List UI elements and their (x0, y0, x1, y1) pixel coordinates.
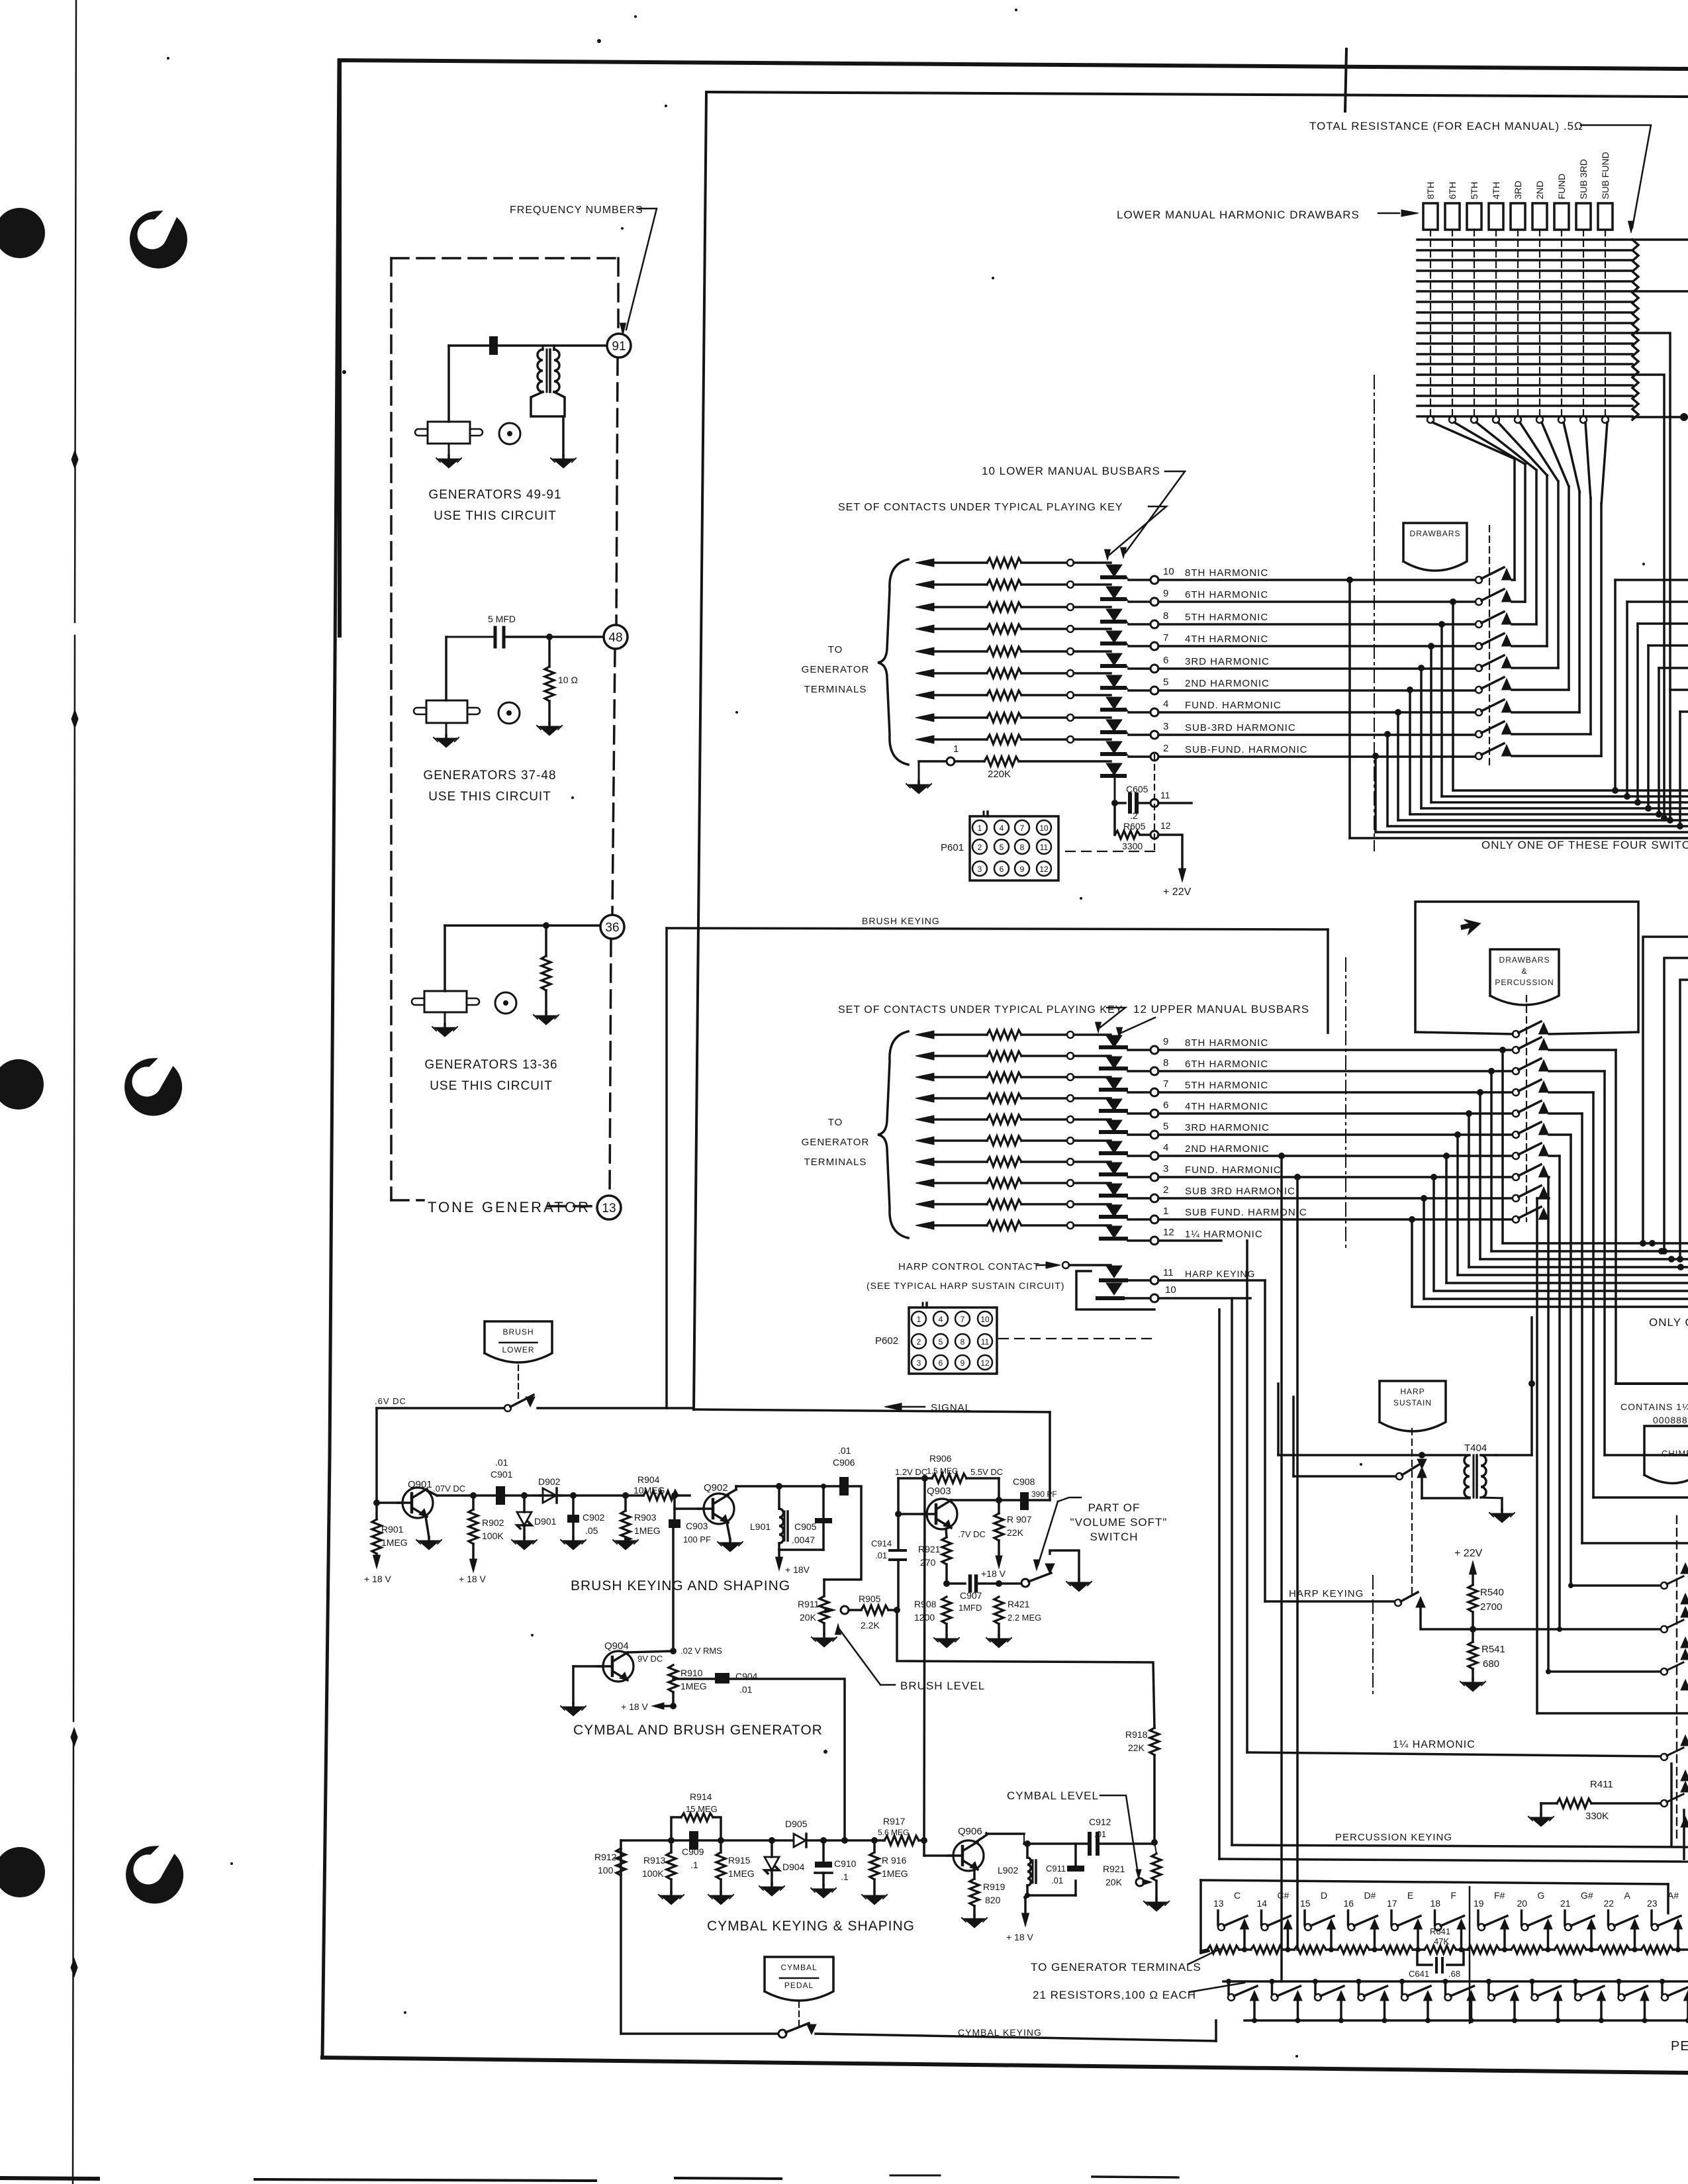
svg-text:R904: R904 (637, 1474, 660, 1485)
transistor Q903 (927, 1499, 957, 1529)
upper contacts leader (1100, 1008, 1125, 1027)
svg-text:2: 2 (917, 1337, 921, 1347)
percussion contact R411 (1661, 1800, 1667, 1807)
svg-text:C906: C906 (833, 1457, 855, 1468)
svg-text:.68: .68 (1448, 1969, 1460, 1979)
signal drop to Q903 (1049, 1412, 1051, 1500)
phase dot gen1 (499, 423, 520, 444)
P601 pin 11 (1037, 839, 1051, 854)
ground gen2 res (548, 723, 551, 726)
+18V R902 (470, 1559, 477, 1572)
svg-text:LOWER MANUAL HARMONIC DRAWB: LOWER MANUAL HARMONIC DRAWBARS (1117, 209, 1360, 221)
svg-text:A#: A# (1667, 1890, 1679, 1901)
svg-text:820: 820 (985, 1895, 1001, 1905)
Q901 base tee (373, 1499, 380, 1506)
bank2 cascade junction 8 (1430, 1174, 1437, 1180)
zener D904 (769, 1837, 775, 1844)
svg-text:BRUSH: BRUSH (502, 1327, 534, 1337)
zener D901 (521, 1492, 528, 1499)
svg-text:SET OF CONTACTS UNDER TYPI: SET OF CONTACTS UNDER TYPICAL PLAYING KE… (838, 1004, 1123, 1016)
svg-text:10MEG: 10MEG (633, 1485, 665, 1496)
svg-text:6: 6 (1000, 865, 1004, 874)
lower output line 7 (1127, 643, 1129, 646)
svg-text:91: 91 (612, 340, 626, 354)
svg-text:DRAWBARS: DRAWBARS (1410, 529, 1461, 538)
inner frame top edge (706, 92, 1688, 97)
bank1 switch 4 output (1512, 645, 1547, 647)
drawbar SUB 3RD dashed lead (1583, 230, 1584, 417)
lower busbar contact 1 (1106, 763, 1122, 775)
phase dot gen3 (495, 992, 516, 1014)
svg-text:C910: C910 (834, 1858, 857, 1869)
harp keying wire (1265, 1600, 1395, 1603)
node 12 circle (1150, 831, 1158, 839)
P602 pin 3 (912, 1355, 926, 1370)
drawbars-percussion box (1415, 902, 1638, 1032)
bottom edge scuff marks (0, 2178, 98, 2179)
svg-text:3RD HARMONIC: 3RD HARMONIC (1185, 656, 1270, 667)
svg-text:GENERATOR: GENERATOR (802, 1137, 870, 1148)
upper contact line 7 (915, 1073, 934, 1081)
svg-text:CYMBAL: CYMBAL (780, 1963, 817, 1972)
svg-text:2700: 2700 (1480, 1601, 1502, 1613)
svg-text:HARP KEYING: HARP KEYING (1289, 1588, 1364, 1599)
svg-text:5: 5 (1000, 843, 1004, 852)
percussion lower key C (1226, 1979, 1231, 1984)
P602 dashed link (999, 1338, 1154, 1339)
cymbal hood dashed lead (798, 2002, 800, 2027)
svg-text:D901: D901 (534, 1516, 557, 1527)
bank1 switch 7 (1476, 709, 1482, 716)
svg-text:2.2 MEG: 2.2 MEG (1008, 1613, 1041, 1623)
svg-text:1MEG: 1MEG (634, 1525, 661, 1536)
svg-text:D905: D905 (785, 1819, 808, 1829)
svg-text:.01: .01 (1051, 1875, 1063, 1885)
transistor Q901 (402, 1488, 433, 1518)
vertical out4 drop (1280, 1156, 1283, 1981)
svg-text:+ 18 V: + 18 V (364, 1574, 392, 1584)
svg-text:11: 11 (1160, 790, 1170, 800)
svg-text:FUND. HARMONIC: FUND. HARMONIC (1185, 700, 1282, 711)
hood DRAWBARS (1403, 523, 1467, 571)
svg-text:330K: 330K (1585, 1811, 1609, 1822)
bank1 switch 3 output (1512, 623, 1536, 626)
+22V feed lower (1158, 835, 1182, 871)
resistor R902 100K (472, 1496, 475, 1509)
ground gen1 sec (562, 455, 565, 459)
P602 pin 10 (978, 1311, 992, 1326)
svg-text:HARP KEYING: HARP KEYING (1185, 1268, 1255, 1279)
P601 pin 3 (972, 861, 987, 876)
P601 pin 10 (1037, 820, 1051, 835)
vertical percussion keying drop (1231, 1298, 1233, 1845)
bank1 cascade junction 8 (1384, 731, 1391, 737)
transformer secondary load box gen1 (531, 392, 565, 416)
drawbar output circles and fan (1427, 416, 1434, 423)
bank2 cascade junction 5 (1466, 1110, 1472, 1117)
svg-text:+ 18 V: + 18 V (1006, 1932, 1034, 1942)
svg-text:21: 21 (1560, 1898, 1571, 1909)
lower contact line 8 (915, 603, 934, 611)
svg-text:1: 1 (1163, 1206, 1168, 1217)
vertical 1 1/4 harmonic drop (1246, 1241, 1248, 1752)
svg-text:R421: R421 (1008, 1599, 1030, 1609)
bank1 cascade junction 2 (1450, 598, 1456, 605)
bank1 cascade junction 3 (1438, 621, 1445, 628)
capacitor C902 .05 (572, 1496, 575, 1515)
svg-text:3: 3 (917, 1358, 921, 1368)
svg-text:R903: R903 (634, 1512, 657, 1523)
bank1 switch 6 output (1512, 688, 1569, 691)
bank1 switch 4 (1476, 643, 1482, 649)
bank1 switch 7 output (1512, 711, 1579, 714)
hole reinforcement mark 3 (128, 1848, 181, 1901)
svg-text:20K: 20K (800, 1612, 817, 1623)
svg-text:11: 11 (1163, 1267, 1174, 1278)
svg-text:R915: R915 (728, 1855, 751, 1866)
capacitor C903 100PF (673, 1509, 676, 1519)
percussion keying bottom line (1232, 1845, 1688, 1847)
svg-text:1MEG: 1MEG (728, 1868, 755, 1879)
P602 pin 4 (933, 1311, 948, 1326)
svg-text:7: 7 (1020, 824, 1025, 833)
percussion contact 1.25 (1661, 1754, 1667, 1760)
P602 pin 2 (912, 1334, 926, 1349)
bank1 cascade junction 1 (1346, 577, 1353, 583)
upper output line 3 (1128, 1176, 1150, 1178)
upper output line 2 (1128, 1197, 1150, 1200)
percussion lower key A# (1660, 1979, 1665, 1984)
cymbal keying to percussion rows (1215, 2020, 1217, 2041)
svg-text:C908: C908 (1013, 1476, 1035, 1487)
bank2 switch 7 (1513, 1153, 1519, 1159)
L901 C905 bottom wire (779, 1548, 823, 1551)
drawbars label arrow (1378, 213, 1399, 214)
wire to Q902 base (673, 1496, 676, 1509)
bank1 cascade junction 7 (1395, 709, 1401, 716)
drawbar 4TH (1489, 203, 1503, 230)
ground gen1 box (448, 444, 450, 455)
svg-text:.7V DC: .7V DC (958, 1529, 986, 1539)
+18V R907 (996, 1556, 1002, 1568)
cymbal rail (621, 1839, 689, 1842)
svg-text:.01: .01 (838, 1445, 851, 1456)
svg-text:5TH HARMONIC: 5TH HARMONIC (1185, 1080, 1268, 1091)
svg-text:4TH: 4TH (1491, 182, 1501, 199)
svg-text:13: 13 (1213, 1898, 1224, 1909)
svg-text:13: 13 (602, 1202, 616, 1215)
svg-text:R917: R917 (883, 1816, 906, 1827)
dash-dot separator upper (1374, 375, 1375, 851)
svg-text:C: C (1234, 1890, 1241, 1901)
capacitor C901 .01 (496, 1486, 505, 1505)
pot R921 20K (1154, 1842, 1156, 1854)
svg-text:8TH HARMONIC: 8TH HARMONIC (1185, 1037, 1268, 1049)
svg-text:21 RESISTORS,100 Ω EACH: 21 RESISTORS,100 Ω EACH (1033, 1989, 1196, 2001)
lower contact line 1 (220K) (919, 760, 947, 763)
busbar 10 left hook wire (1076, 1271, 1154, 1309)
bank1 switch 9 (1476, 753, 1482, 759)
upper output line 8 (1128, 1070, 1150, 1072)
svg-text:F: F (1451, 1890, 1457, 1901)
svg-text:R910: R910 (680, 1668, 703, 1678)
capacitor C907 1MFD (947, 1582, 965, 1585)
P601 pin 4 (994, 820, 1009, 835)
svg-text:.02 V RMS: .02 V RMS (680, 1646, 722, 1656)
svg-text:D: D (1321, 1890, 1327, 1901)
svg-text:R905: R905 (859, 1593, 881, 1604)
svg-text:9: 9 (961, 1358, 965, 1368)
connector P602 (909, 1307, 997, 1374)
node 36 (600, 915, 624, 939)
bank1 cascade junction 9 (1372, 753, 1379, 759)
svg-text:8: 8 (1163, 610, 1168, 622)
upper busbar contact 5 (1106, 1120, 1122, 1132)
svg-text:GENERATORS 37-48: GENERATORS 37-48 (423, 769, 556, 783)
lower busbar contact 9 (1106, 587, 1122, 598)
bank2 switch 9 (1513, 1195, 1519, 1202)
harp switch make arrow (1417, 1467, 1427, 1478)
svg-text:C902: C902 (583, 1512, 605, 1523)
right edge verticals to percussion box (1670, 1764, 1673, 1845)
bank1 cascade junction 4 (1428, 643, 1434, 649)
svg-text:C909: C909 (682, 1846, 704, 1857)
bank2 cascade junction 9 (1421, 1195, 1427, 1202)
svg-text:3300: 3300 (1122, 841, 1143, 851)
upper busbar contact 8 (1106, 1057, 1122, 1068)
C904 output wire (729, 1679, 845, 1840)
lower contact line 4 (915, 691, 934, 699)
percussion lower key D# (1356, 1979, 1362, 1984)
Q904 collector (626, 1651, 673, 1652)
bank2 switch 8 output (1548, 1176, 1549, 1178)
lower output line 6 (1127, 666, 1129, 669)
ground gen2 box (445, 723, 447, 735)
resistor R906 1.5MEG (932, 1474, 966, 1483)
upper busbar contact 9 (1106, 1035, 1122, 1047)
svg-text:2: 2 (1163, 743, 1168, 754)
wire gen1 top (449, 344, 608, 347)
ground 220K (918, 761, 920, 781)
lattice wire to switch section 1 (1632, 238, 1688, 241)
cymbal keying wire to pedal switch (621, 2032, 778, 2035)
svg-text:+ 18 V: + 18 V (459, 1574, 487, 1584)
brush rail (437, 1494, 496, 1497)
upper busbar contact 7 (1106, 1078, 1122, 1090)
brush hood dashed lead (518, 1365, 519, 1398)
bank1 switch 6 (1476, 687, 1482, 693)
R914 15MEG bridge (671, 1817, 681, 1840)
vertical harp keying drop (1264, 1280, 1266, 1601)
resistor R421 2.2MEG (994, 1597, 1004, 1624)
svg-text:BRUSH LEVEL: BRUSH LEVEL (900, 1680, 985, 1692)
P602 pin 11 (978, 1334, 992, 1349)
svg-text:C905: C905 (794, 1521, 817, 1532)
percussion lower key F# (1486, 1979, 1491, 1984)
inductor L901 (776, 1483, 782, 1490)
svg-text:10: 10 (1163, 566, 1174, 577)
svg-text:+18 V: +18 V (981, 1568, 1006, 1579)
P601 pin 9 (1015, 861, 1029, 876)
svg-text:6TH HARMONIC: 6TH HARMONIC (1185, 589, 1268, 600)
fold line tick marks (71, 450, 78, 469)
svg-text:FUND: FUND (1556, 173, 1567, 199)
capacitor C914 .01 (890, 1549, 906, 1552)
svg-text:R 907: R 907 (1007, 1514, 1032, 1525)
svg-text:SUB FUND: SUB FUND (1600, 152, 1611, 199)
bank1 switch 5 output (1512, 667, 1558, 669)
svg-text:1MFD: 1MFD (959, 1603, 982, 1613)
svg-text:5: 5 (939, 1337, 943, 1347)
signal wire (694, 1409, 1050, 1412)
svg-text:PE: PE (1671, 2039, 1688, 2054)
volume soft leader (1058, 1497, 1081, 1501)
bank2 switch 9 output (1537, 1197, 1549, 1200)
P602 pin 12 (978, 1355, 992, 1370)
svg-text:14: 14 (1257, 1898, 1268, 1909)
harp hood dashed lead (1411, 1429, 1413, 1595)
cymbal pedal switch (778, 2030, 786, 2038)
generator box 49-91 (428, 422, 470, 444)
svg-text:1: 1 (953, 743, 959, 755)
svg-text:.01: .01 (1094, 1829, 1106, 1839)
lower busbar contact 6 (1106, 653, 1122, 665)
svg-text:TO: TO (828, 1117, 843, 1128)
svg-text:20: 20 (1517, 1898, 1528, 1909)
bank2 switch 2 output (1549, 1049, 1616, 1051)
svg-text:SUB 3RD: SUB 3RD (1578, 159, 1589, 199)
resistor R912 100 (616, 1848, 626, 1875)
drawbar 5TH (1467, 203, 1481, 230)
drawbar FUND dashed lead (1561, 230, 1562, 417)
lower busbar contact 3 (1106, 720, 1122, 732)
svg-text:SUB-3RD HARMONIC: SUB-3RD HARMONIC (1185, 722, 1296, 734)
resistor gen3 (545, 926, 547, 956)
svg-text:11: 11 (1040, 843, 1049, 852)
inductor L902 (1024, 1840, 1031, 1847)
upper busbars leader (1121, 1018, 1155, 1033)
svg-text:.6V DC: .6V DC (375, 1396, 406, 1406)
resistor R915 1MEG (718, 1837, 724, 1844)
svg-text:5TH: 5TH (1469, 182, 1479, 199)
svg-text:8TH HARMONIC: 8TH HARMONIC (1185, 567, 1268, 579)
resistor R913 100K (668, 1837, 675, 1844)
lower busbar contact 4 (1106, 697, 1122, 709)
capacitor C908 390PF (999, 1499, 1019, 1501)
svg-text:FUND. HARMONIC: FUND. HARMONIC (1185, 1164, 1282, 1176)
drawbar FUND (1554, 203, 1569, 230)
svg-text:R921: R921 (918, 1544, 941, 1554)
svg-text:USE THIS CIRCUIT: USE THIS CIRCUIT (428, 790, 551, 804)
node 48 (604, 625, 628, 649)
percussion dashed divider right (1676, 1516, 1677, 1840)
junction gen3 (543, 922, 549, 929)
svg-text:1¼ HARMONIC: 1¼ HARMONIC (1185, 1229, 1263, 1240)
svg-text:TOTAL RESISTANCE (FOR EACH: TOTAL RESISTANCE (FOR EACH MANUAL) .5Ω (1309, 120, 1583, 132)
lattice wire to switch section 2 (1632, 290, 1688, 293)
percussion lower key F (1443, 1979, 1448, 1984)
bank1 switch 8 (1476, 731, 1482, 737)
Q903 base rail (897, 1478, 900, 1550)
P602 pin 6 (933, 1355, 948, 1370)
svg-text:.0047: .0047 (792, 1535, 815, 1545)
svg-text:.01: .01 (495, 1457, 508, 1468)
svg-text:100K: 100K (642, 1868, 664, 1879)
svg-text:TERMINALS: TERMINALS (804, 1157, 867, 1168)
P601 pin 6 (994, 861, 1009, 876)
wire gen2 top (446, 636, 495, 638)
P602 pin 9 (955, 1355, 970, 1370)
C906 output drop (824, 1486, 861, 1580)
brush switch wire (377, 1407, 504, 1409)
svg-text:+ 18 V: + 18 V (621, 1701, 649, 1712)
bank1 right nest wires (1615, 579, 1688, 581)
bank2 row crossing dots (1649, 1240, 1656, 1247)
capacitor C906 .01 (839, 1477, 849, 1496)
svg-text:19: 19 (1474, 1898, 1484, 1909)
svg-text:R919: R919 (983, 1881, 1006, 1892)
percussion lower key D (1313, 1979, 1318, 1984)
total resistance leader (1581, 125, 1651, 228)
svg-text:TONE GENERATOR: TONE GENERATOR (428, 1199, 590, 1215)
generator box 37-48 (426, 700, 467, 723)
R921 wiper (1136, 1878, 1144, 1886)
svg-text:23: 23 (1647, 1898, 1658, 1909)
node 11 circle (1150, 799, 1158, 807)
P602 pin 1 (912, 1311, 926, 1326)
svg-text:C#: C# (1278, 1890, 1289, 1901)
resistor R605 3300 (1113, 803, 1116, 835)
svg-text:C907: C907 (960, 1590, 982, 1601)
drawbar chain resistor zigzag (1632, 240, 1638, 420)
svg-text:3RD HARMONIC: 3RD HARMONIC (1185, 1122, 1270, 1133)
svg-text:CYMBAL AND BRUSH GENERATOR: CYMBAL AND BRUSH GENERATOR (573, 1723, 823, 1738)
percussion lower key C# (1270, 1979, 1275, 1984)
svg-text:6: 6 (1163, 1100, 1168, 1111)
lower contact line 7 (915, 625, 934, 633)
Q903 emitter R921-270 (946, 1529, 947, 1537)
svg-text:22: 22 (1604, 1898, 1615, 1909)
svg-text:100: 100 (598, 1865, 614, 1875)
svg-text:ONLY ON: ONLY ON (1649, 1316, 1688, 1329)
svg-text:4: 4 (1000, 824, 1004, 833)
wire gen3 res down (545, 990, 547, 1012)
vertical out3 drop (1296, 1177, 1299, 1950)
svg-text:6: 6 (939, 1358, 943, 1368)
upper busbar contact 3 (1106, 1163, 1122, 1174)
svg-text:HARP: HARP (1400, 1387, 1425, 1396)
svg-text:6: 6 (1163, 655, 1168, 666)
lower contact line 6 (915, 647, 934, 655)
resistor R908 1200 (942, 1597, 951, 1624)
diode D905 (794, 1834, 806, 1847)
svg-text:12: 12 (1160, 820, 1171, 831)
bank2 switch 4 (1513, 1089, 1519, 1096)
svg-text:R 916: R 916 (882, 1855, 907, 1866)
svg-text:.1: .1 (690, 1860, 698, 1870)
svg-text:PART OF: PART OF (1088, 1501, 1141, 1514)
svg-text:1: 1 (917, 1315, 921, 1324)
scan specks (597, 39, 601, 43)
bank2 switch 4 output (1549, 1091, 1593, 1094)
svg-text:SET OF CONTACTS UNDER TYPI: SET OF CONTACTS UNDER TYPICAL PLAYING KE… (838, 502, 1123, 513)
resistor R905 2.2K (849, 1609, 861, 1611)
P601 pin 2 (972, 839, 987, 854)
bank1 switch 9 output (1512, 755, 1601, 757)
svg-text:8: 8 (1163, 1057, 1168, 1068)
svg-text:PERCUSSION KEYING: PERCUSSION KEYING (1335, 1832, 1452, 1843)
upper contact line 1 (915, 1200, 934, 1208)
